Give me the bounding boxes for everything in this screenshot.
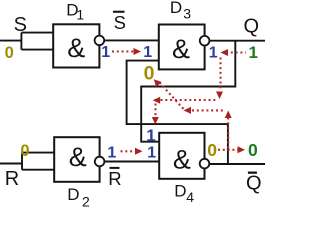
svg-text:R: R bbox=[5, 168, 19, 190]
svg-text:D: D bbox=[67, 185, 79, 204]
svg-text:1: 1 bbox=[143, 44, 152, 61]
svg-text:1: 1 bbox=[147, 145, 156, 162]
svg-text:1: 1 bbox=[209, 45, 218, 62]
svg-text:0: 0 bbox=[248, 140, 258, 160]
svg-text:0: 0 bbox=[5, 44, 14, 62]
svg-text:1: 1 bbox=[101, 44, 110, 61]
svg-text:Q: Q bbox=[246, 172, 262, 194]
svg-text:&: & bbox=[173, 145, 191, 175]
svg-text:&: & bbox=[172, 34, 190, 64]
svg-text:4: 4 bbox=[186, 189, 194, 205]
svg-text:D: D bbox=[170, 0, 182, 17]
svg-text:Q: Q bbox=[244, 15, 260, 37]
svg-text:1: 1 bbox=[76, 7, 84, 23]
svg-text:1: 1 bbox=[249, 43, 258, 62]
svg-text:D: D bbox=[174, 181, 186, 200]
svg-text:0: 0 bbox=[207, 140, 217, 160]
svg-text:0: 0 bbox=[20, 142, 29, 160]
svg-text:S: S bbox=[14, 14, 27, 36]
svg-text:2: 2 bbox=[82, 194, 90, 209]
svg-text:1: 1 bbox=[146, 126, 155, 145]
svg-text:1: 1 bbox=[107, 145, 116, 162]
svg-text:&: & bbox=[69, 142, 87, 172]
svg-text:S: S bbox=[114, 12, 126, 33]
svg-text:3: 3 bbox=[183, 5, 191, 21]
svg-text:0: 0 bbox=[144, 63, 155, 85]
svg-text:R: R bbox=[108, 168, 121, 189]
svg-text:&: & bbox=[67, 33, 85, 63]
